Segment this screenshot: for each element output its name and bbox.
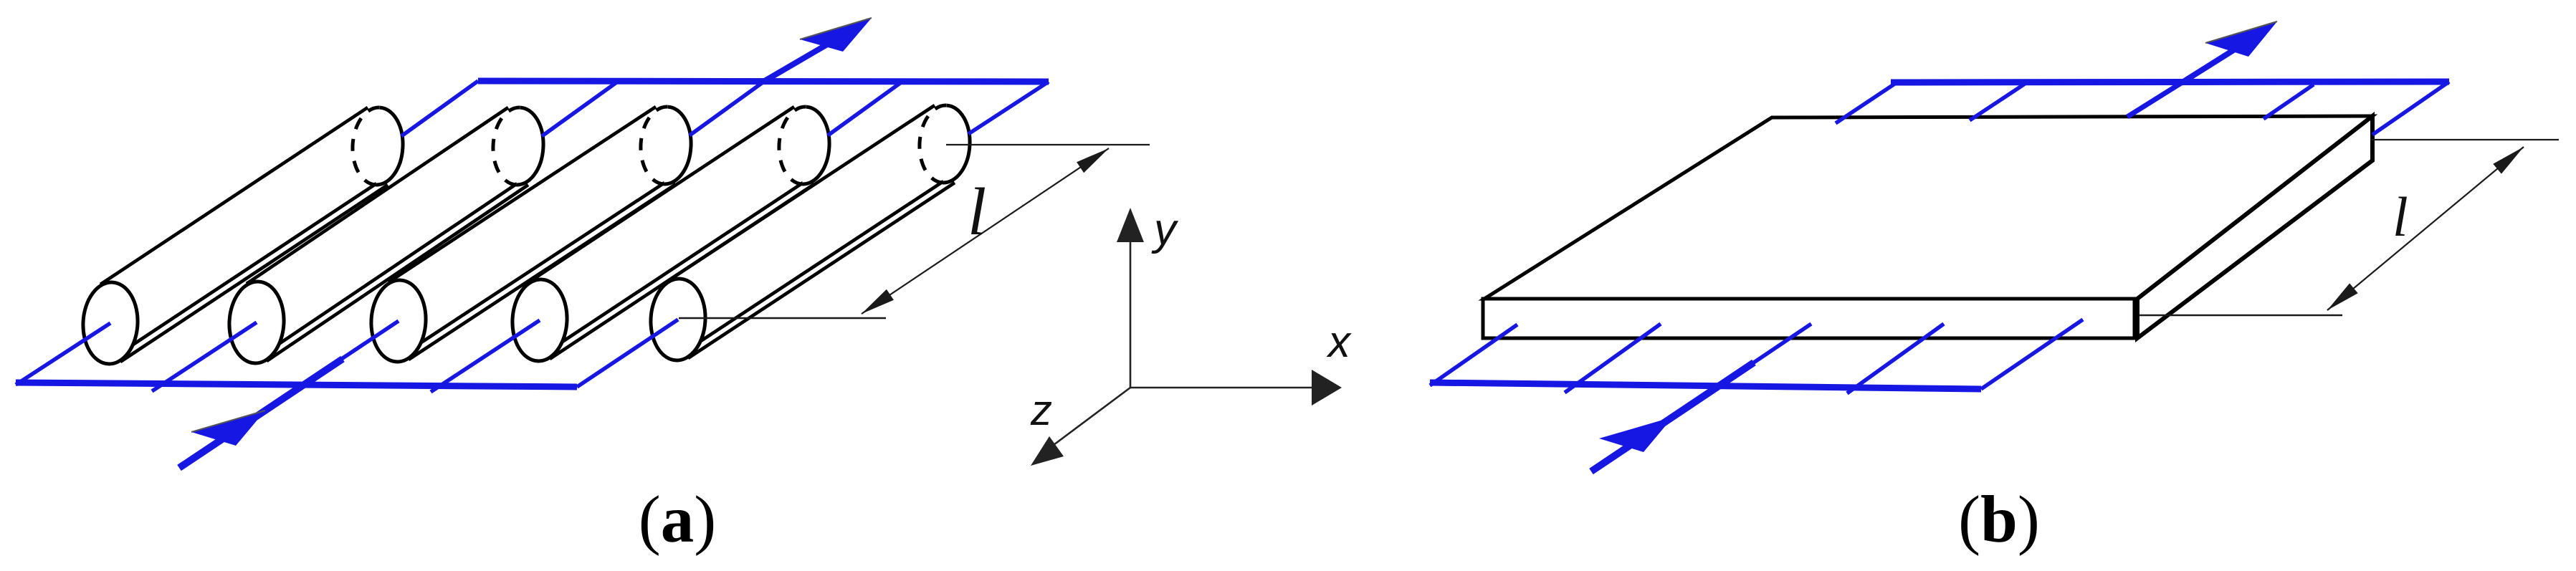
svg-text:l: l bbox=[968, 175, 986, 249]
svg-text:z: z bbox=[1030, 386, 1052, 434]
svg-text:y: y bbox=[1151, 205, 1179, 254]
svg-text:l: l bbox=[2393, 186, 2408, 248]
svg-text:(a): (a) bbox=[639, 483, 716, 557]
svg-text:x: x bbox=[1326, 317, 1352, 367]
svg-text:(b): (b) bbox=[1958, 483, 2040, 557]
